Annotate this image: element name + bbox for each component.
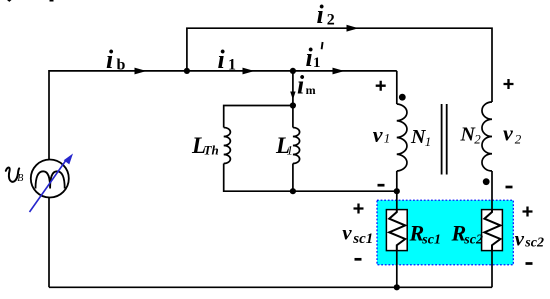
svg-text:i: i xyxy=(317,0,325,29)
svg-text:sc1: sc1 xyxy=(421,232,441,247)
svg-text:v: v xyxy=(515,227,525,251)
svg-text:i: i xyxy=(106,45,114,74)
svg-text:1: 1 xyxy=(425,134,432,149)
svg-text:m: m xyxy=(306,83,316,97)
svg-text:2: 2 xyxy=(515,131,522,146)
svg-text:2: 2 xyxy=(327,12,335,29)
svg-text:2: 2 xyxy=(474,131,481,146)
svg-text:sc1: sc1 xyxy=(352,231,373,247)
svg-text:i: i xyxy=(218,45,226,74)
svg-text:v: v xyxy=(373,122,383,147)
svg-text:1: 1 xyxy=(228,57,236,74)
svg-text:sc2: sc2 xyxy=(524,236,544,251)
svg-text:b: b xyxy=(117,57,126,74)
svg-text:Th: Th xyxy=(204,143,219,158)
svg-text:sc2: sc2 xyxy=(463,232,483,247)
svg-text:i: i xyxy=(297,71,305,100)
svg-text:v: v xyxy=(342,220,352,244)
svg-text:1: 1 xyxy=(384,130,391,145)
svg-text:1: 1 xyxy=(313,55,321,71)
svg-text:v: v xyxy=(503,120,513,145)
svg-text:1: 1 xyxy=(287,143,294,158)
